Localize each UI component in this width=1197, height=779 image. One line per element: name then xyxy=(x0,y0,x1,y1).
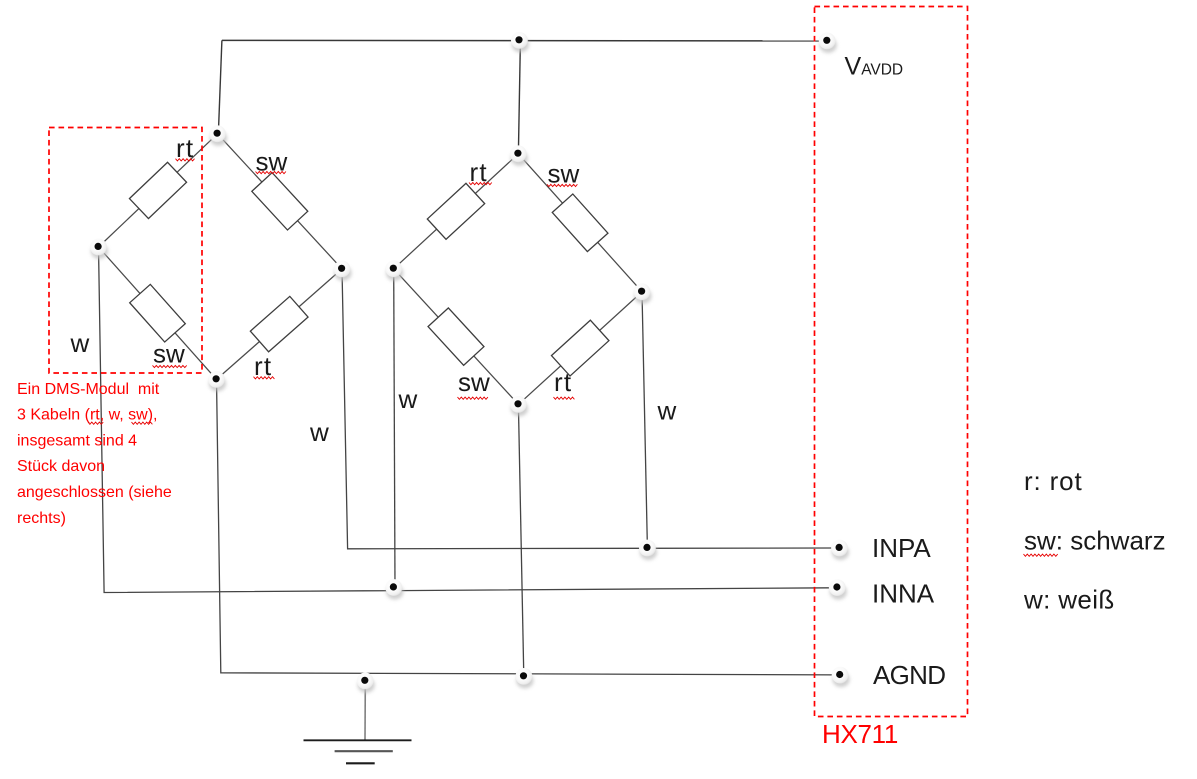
squiggly underline under sw xyxy=(256,172,286,174)
svg-text:sw: sw xyxy=(153,339,185,369)
node: bridge 2 top xyxy=(510,145,528,165)
ground stem wire xyxy=(364,686,366,740)
node: AGND terminal xyxy=(832,667,850,687)
node: INNA junction xyxy=(385,579,403,599)
svg-text:rt: rt xyxy=(254,351,272,381)
svg-text:w: weiß: w: weiß xyxy=(1023,585,1115,615)
svg-text:rechts): rechts) xyxy=(17,510,66,527)
node: INPA junction xyxy=(639,540,657,560)
wire: bridge 2 bottom node (sw) down to AGND junction xyxy=(518,404,523,676)
node: bridge 2 right xyxy=(634,283,652,303)
wire: bridge 1 edge bottom-right (rt arm) xyxy=(217,269,343,380)
wire: bridge 2 edge bottom-right (rt arm) xyxy=(518,292,642,405)
squiggly underline under sw xyxy=(547,184,577,186)
HX711 module outline (red dashed box) xyxy=(815,7,968,717)
wire: bridge 1 right node (w) down and right to INPA xyxy=(342,269,833,549)
svg-text:r: rot: r: rot xyxy=(1024,466,1083,496)
node: INNA terminal xyxy=(829,579,847,599)
wire: bridge 2 right node (w) down to INPA junction xyxy=(642,292,647,548)
wire: top rail drop to bridge 1 top node xyxy=(218,40,222,132)
svg-text:Stück davon: Stück davon xyxy=(17,458,105,475)
resistor: bridge 2 rt strain gauge (top-left) xyxy=(427,183,484,239)
squiggly underline under sw xyxy=(458,397,488,399)
wire: top rail drop to bridge 2 top node xyxy=(518,41,520,153)
wire: bridge 1 bottom node (sw) down and right to AGND xyxy=(217,379,835,675)
svg-text:insgesamt sind 4: insgesamt sind 4 xyxy=(17,432,137,449)
squiggly underline under sw xyxy=(153,365,187,367)
node: bridge 1 top xyxy=(209,125,227,145)
squiggly underline under sw in annotation xyxy=(132,422,153,424)
svg-text:sw: schwarz: sw: schwarz xyxy=(1024,526,1166,556)
svg-text:rt: rt xyxy=(554,367,572,397)
squiggly underline under rt xyxy=(554,397,575,399)
node: AGND junction bridge 2 xyxy=(516,668,534,688)
svg-text:Ein DMS-Modul mit: Ein DMS-Modul mit xyxy=(17,381,160,398)
node: bridge 1 bottom xyxy=(208,371,226,391)
node: AGND / ground junction xyxy=(357,673,375,693)
svg-text:w: w xyxy=(398,384,418,414)
node: INPA terminal xyxy=(831,540,849,560)
svg-text:HX711: HX711 xyxy=(822,719,898,749)
node: bridge 1 left xyxy=(90,239,108,259)
wire: bridge 2 edge top-left (rt arm) xyxy=(394,154,519,269)
resistor: bridge 1 sw strain gauge (bottom-left) xyxy=(130,284,186,342)
wire: bridge 2 edge bottom-left (sw arm) xyxy=(394,269,519,405)
ground symbol bar 2 xyxy=(335,750,393,752)
resistor: bridge 2 rt strain gauge (bottom-right) xyxy=(551,320,608,376)
wire: bridge 1 left node (w) down and right to INNA xyxy=(99,247,834,593)
squiggly underline under rt xyxy=(254,377,275,379)
wire: bridge 1 edge bottom-left (sw arm) xyxy=(99,247,217,379)
node: top rail junction above bridge 2 xyxy=(511,32,529,52)
node: bridge 1 right xyxy=(334,261,352,281)
DMS module outline (red dashed box, one module = half bridge) xyxy=(49,128,202,374)
wire: bridge 2 edge top-right (sw arm) xyxy=(518,154,642,292)
wire: bridge 1 edge top-right (sw arm) xyxy=(218,134,343,269)
node: bridge 2 bottom xyxy=(510,396,528,416)
resistor: bridge 2 sw strain gauge (top-right) xyxy=(552,194,608,252)
svg-text:INPA: INPA xyxy=(872,533,931,563)
svg-text:rt: rt xyxy=(470,157,488,187)
svg-text:sw: sw xyxy=(458,367,490,397)
squiggly underline under sw in legend xyxy=(1024,554,1058,556)
resistor: bridge 1 rt strain gauge (bottom-right) xyxy=(250,296,308,351)
svg-text:w: w xyxy=(70,328,90,358)
svg-text:AGND: AGND xyxy=(873,660,945,690)
squiggly underline under rt xyxy=(176,159,195,161)
ground symbol bar 3 xyxy=(346,762,375,764)
wire: bridge 2 left node (w) down to INNA junction xyxy=(394,269,395,588)
svg-text:w: w xyxy=(657,396,677,426)
svg-text:angeschlossen (siehe: angeschlossen (siehe xyxy=(17,484,172,501)
resistor: bridge 1 sw strain gauge (top-right) xyxy=(252,173,308,230)
svg-text:w: w xyxy=(309,417,329,447)
svg-text:sw: sw xyxy=(548,159,580,189)
ground symbol bar 1 xyxy=(304,739,412,741)
node: VAVDD terminal xyxy=(819,33,837,53)
squiggly underline under rt xyxy=(469,183,492,185)
node: bridge 2 left xyxy=(385,260,403,280)
squiggly underline under rt in annotation xyxy=(88,422,103,424)
svg-text:rt: rt xyxy=(176,133,194,163)
wire: VAVDD top rail xyxy=(222,39,827,42)
resistor: bridge 2 sw strain gauge (bottom-left) xyxy=(428,308,484,365)
svg-text:INNA: INNA xyxy=(872,579,935,609)
svg-text:3 Kabeln (rt, w, sw),: 3 Kabeln (rt, w, sw), xyxy=(17,407,158,424)
wire: bridge 1 edge top-left (rt arm) xyxy=(99,134,218,247)
resistor: bridge 1 rt strain gauge (top-left) xyxy=(129,162,186,218)
